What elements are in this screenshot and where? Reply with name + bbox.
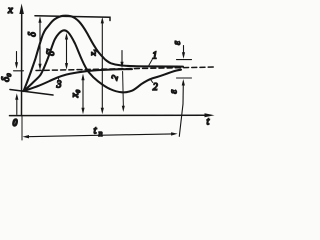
- delta0 tick: [14, 70, 24, 72]
- svg-text:ε: ε: [169, 90, 180, 94]
- svg-text:t: t: [207, 117, 210, 128]
- epsilon lower tick: [177, 77, 192, 79]
- curve 3 (monotonic response): [24, 69, 133, 91]
- svg-text:0: 0: [13, 118, 18, 129]
- t axis (horizontal time axis): [10, 114, 208, 116]
- dimension delta0 upper arrow: [16, 52, 18, 64]
- x axis (vertical ordinate axis): [21, 8, 23, 116]
- curve 2 leader: [150, 79, 152, 82]
- curve 1 leader: [149, 60, 152, 66]
- settling time dimension line tn: [27, 134, 173, 137]
- curve 2 (aperiodic response with undershoot): [24, 30, 182, 92]
- epsilon lower arrow and extension: [179, 84, 183, 136]
- svg-text:2: 2: [109, 74, 120, 81]
- svg-text:3: 3: [56, 80, 62, 91]
- dimension x-max (peak ordinate): [101, 21, 103, 110]
- svg-text:x₀: x₀: [70, 89, 81, 98]
- svg-text:1: 1: [152, 51, 157, 62]
- svg-text:2: 2: [153, 82, 158, 93]
- dimension x0 (ordinate of curve 3): [82, 78, 84, 110]
- initial value line: [10, 90, 53, 96]
- svg-text:x: x: [7, 4, 13, 16]
- svg-text:δ': δ': [46, 48, 57, 56]
- dimension delta0 lower arrow: [16, 99, 18, 115]
- x axis arrowhead: [19, 4, 24, 15]
- t axis arrowhead: [205, 113, 215, 117]
- dimension x2 upper arrow at x=122: [121, 51, 123, 64]
- dimension delta (overshoot of curve 1): [39, 21, 41, 64]
- svg-text:δ: δ: [28, 32, 39, 37]
- tn left extension line: [21, 116, 23, 140]
- svg-text:δ₀: δ₀: [0, 73, 12, 82]
- curve 3 leader: [57, 77, 60, 79]
- dimension delta-prime (overshoot of curve 2): [66, 37, 68, 64]
- x2 lower line: [122, 72, 125, 109]
- steady-state dashed line: [36, 67, 216, 71]
- peak level reference line: [35, 16, 110, 21]
- svg-text:ε: ε: [172, 41, 183, 45]
- svg-text:п: п: [99, 129, 103, 138]
- svg-text:t: t: [94, 125, 98, 137]
- svg-text:x₁: x₁: [89, 49, 98, 57]
- epsilon upper arrow: [183, 46, 185, 55]
- curve 1 (oscillatory response): [24, 16, 184, 91]
- epsilon upper tick: [177, 59, 192, 61]
